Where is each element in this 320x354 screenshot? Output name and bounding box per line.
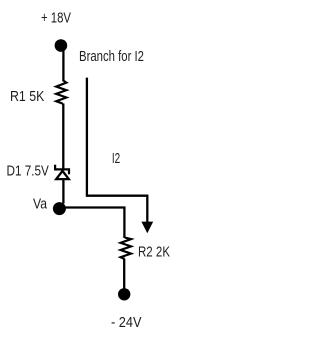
- svg-text:+ 18V: + 18V: [41, 10, 71, 26]
- svg-text:D1 7.5V: D1 7.5V: [7, 164, 50, 180]
- svg-text:R2 2K: R2 2K: [138, 245, 170, 261]
- wire R1 to D1: [62, 103, 64, 169]
- resistor R1: [56, 81, 66, 104]
- node bottom (-24V terminal): [118, 288, 130, 300]
- diode D1 zener cathode bar left bent end: [54, 165, 56, 171]
- svg-text:Branch for I2: Branch for I2: [79, 49, 144, 65]
- resistor R2: [121, 238, 131, 259]
- svg-text:R1 5K: R1 5K: [10, 89, 45, 105]
- diode D1 triangle: [56, 171, 69, 179]
- wire I2 branch indicator (elbow): [87, 78, 147, 223]
- diode D1 zener cathode bar: [54, 168, 70, 170]
- wire Va to R2 (elbow): [64, 208, 124, 239]
- arrowhead I2 direction: [141, 222, 153, 234]
- wire D1 to node Va: [62, 180, 64, 204]
- wire R2 to bottom node: [123, 259, 125, 291]
- svg-text:Va: Va: [33, 197, 48, 213]
- wire top node to R1: [62, 46, 64, 82]
- svg-text:I2: I2: [112, 151, 120, 167]
- node top (+18V terminal): [55, 39, 68, 52]
- svg-text:- 24V: - 24V: [111, 315, 142, 331]
- node Va: [53, 202, 66, 215]
- diode D1 zener cathode bar right bent end: [68, 169, 70, 174]
